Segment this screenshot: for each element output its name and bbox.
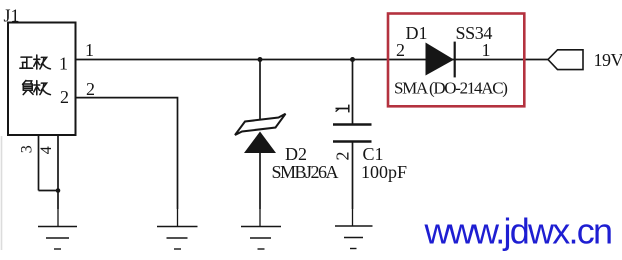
- svg-text:19V: 19V: [594, 50, 622, 70]
- svg-text:2: 2: [86, 79, 95, 99]
- svg-text:1: 1: [85, 40, 94, 60]
- svg-text:2: 2: [396, 40, 405, 60]
- svg-text:1: 1: [482, 40, 491, 60]
- svg-text:SMA (DO-214AC): SMA (DO-214AC): [394, 79, 507, 98]
- svg-text:2: 2: [60, 87, 69, 107]
- svg-text:4: 4: [38, 146, 55, 154]
- svg-text:100pF: 100pF: [361, 162, 407, 182]
- svg-text:1: 1: [59, 54, 68, 74]
- svg-text:J1: J1: [4, 6, 20, 26]
- svg-text:2: 2: [332, 152, 352, 161]
- svg-text:3: 3: [18, 145, 35, 153]
- svg-text:D2: D2: [285, 144, 307, 164]
- svg-text:SMBJ26A: SMBJ26A: [272, 162, 339, 182]
- svg-text:C1: C1: [363, 144, 384, 164]
- svg-text:www.jdwx.cn: www.jdwx.cn: [424, 211, 612, 252]
- svg-text:D1: D1: [406, 23, 428, 43]
